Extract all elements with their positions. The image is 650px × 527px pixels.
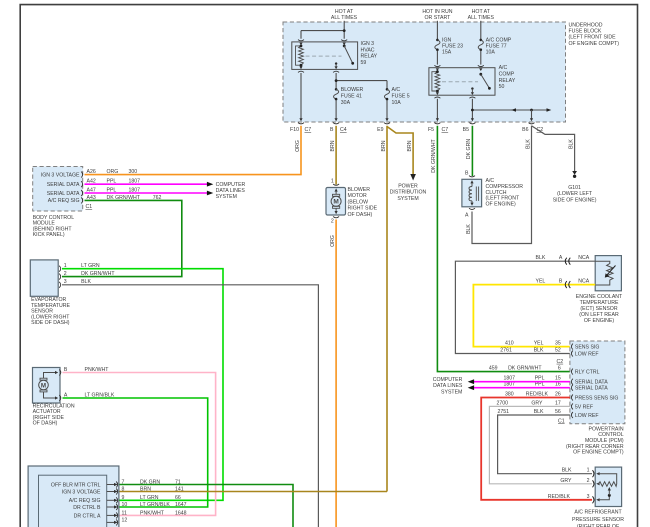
- PCM label: [566, 426, 624, 455]
- pressure sensor label: [572, 510, 624, 527]
- wire BLK PCM 56 to pressure sensor 1: [498, 415, 592, 474]
- svg-text:OF ENGINE COMPT): OF ENGINE COMPT): [573, 450, 624, 456]
- pin arrow relay K2 coil top: [436, 68, 439, 71]
- wire feed to fuse F77: [480, 21, 482, 39]
- svg-text:ALL TIMES: ALL TIMES: [468, 15, 495, 21]
- svg-text:GRY: GRY: [531, 400, 543, 406]
- svg-text:MOTOR: MOTOR: [348, 193, 367, 199]
- svg-text:NCA: NCA: [578, 279, 589, 285]
- PCM pin brackets: [571, 344, 573, 418]
- PCM row labels: [575, 345, 619, 419]
- wire relay K2 switch bottom to B5 pin: [471, 99, 473, 119]
- svg-text:TEMPERATURE: TEMPERATURE: [580, 300, 619, 306]
- pressure sensor pin labels: [548, 468, 590, 500]
- svg-text:RED/BLK: RED/BLK: [548, 494, 571, 500]
- svg-text:B: B: [330, 127, 334, 133]
- svg-text:1648: 1648: [175, 510, 187, 516]
- pin cup relay U1 switch top: [341, 40, 347, 41]
- pin E9: [377, 118, 390, 133]
- wire BRN HVAC row 8 to E9 vertical: [120, 491, 388, 493]
- inline connector ECT A: [565, 258, 570, 265]
- svg-text:15A: 15A: [442, 49, 452, 55]
- svg-text:DATA LINES: DATA LINES: [216, 188, 246, 194]
- svg-text:ORG: ORG: [295, 140, 301, 152]
- power distribution system label: [390, 184, 427, 202]
- svg-text:RELAY: RELAY: [499, 78, 516, 84]
- fuse F5 A/C FUSE 5 10A: [384, 87, 409, 106]
- svg-text:A/C REQ SIG: A/C REQ SIG: [69, 498, 101, 504]
- coil relay U1: [296, 46, 304, 65]
- evaporator sensor pin labels: [64, 263, 116, 285]
- svg-text:OF DASH): OF DASH): [348, 212, 373, 218]
- svg-text:59: 59: [361, 60, 367, 66]
- svg-text:SYSTEM: SYSTEM: [441, 389, 462, 395]
- HVAC pin stubs: [107, 482, 118, 526]
- svg-text:F5: F5: [428, 127, 434, 133]
- svg-text:DK GRN/WHT: DK GRN/WHT: [431, 138, 437, 172]
- svg-text:DR CTRL A: DR CTRL A: [74, 513, 101, 519]
- svg-text:(LEFT FRONT SIDE: (LEFT FRONT SIDE: [569, 35, 617, 41]
- switch relay U1: [335, 45, 354, 67]
- svg-text:PRESS SENS SIG: PRESS SENS SIG: [575, 396, 619, 402]
- svg-text:BRN: BRN: [381, 140, 387, 151]
- svg-text:9: 9: [122, 495, 125, 501]
- labels ECT A row: [535, 255, 589, 261]
- inline connector ECT B: [565, 281, 570, 288]
- svg-text:HVAC: HVAC: [361, 47, 375, 53]
- svg-text:A/C REQ SIG: A/C REQ SIG: [48, 198, 80, 204]
- pin arrow relay K2 switch bottom: [471, 92, 474, 95]
- wire PPL serial data 2: [85, 192, 208, 194]
- svg-text:F10: F10: [290, 127, 299, 133]
- A/C compressor clutch label: [486, 178, 524, 207]
- svg-text:B: B: [559, 279, 563, 285]
- wire fuse F77 to relay K2 switch: [480, 51, 482, 65]
- svg-text:M: M: [333, 199, 338, 206]
- svg-text:DK GRN: DK GRN: [466, 139, 472, 159]
- svg-text:RIGHT SIDE: RIGHT SIDE: [348, 206, 378, 212]
- svg-text:A/C: A/C: [392, 87, 401, 93]
- wire feed to fuse F23: [436, 21, 438, 39]
- svg-text:C7: C7: [442, 127, 449, 133]
- svg-text:OF ENGINE COMPT): OF ENGINE COMPT): [569, 41, 620, 47]
- pin arrow relay U1 switch top: [343, 43, 346, 46]
- ground G101: [553, 171, 597, 203]
- svg-text:BLK: BLK: [535, 255, 545, 261]
- svg-text:5V REF: 5V REF: [575, 404, 593, 410]
- wire LT GRN evap pin 1 to HVAC row 9: [62, 269, 223, 501]
- svg-text:B6: B6: [522, 127, 528, 133]
- relay K2 A/C COMP RELAY 50 box: [429, 68, 495, 96]
- svg-text:30A: 30A: [341, 100, 351, 106]
- svg-text:6: 6: [558, 366, 561, 372]
- wire feed to relay K1: [301, 21, 344, 39]
- PCM powertrain control module box: [570, 341, 625, 424]
- evaporator sensor pin brackets: [59, 266, 61, 288]
- wire PPL PCM 15 to data lines: [474, 381, 570, 383]
- evaporator sensor label: [31, 297, 70, 326]
- svg-text:COMPUTER: COMPUTER: [433, 377, 463, 383]
- wire fuse F41 to pin B: [335, 100, 337, 119]
- svg-text:DK GRN/WHT: DK GRN/WHT: [81, 271, 115, 277]
- svg-text:OF DASH): OF DASH): [33, 421, 58, 427]
- svg-text:(LOWER LEFT: (LOWER LEFT: [557, 191, 593, 197]
- wire PPL PCM 16 to data lines: [474, 387, 570, 389]
- pin cup relay K2 coil bottom: [434, 97, 440, 98]
- wire fuse F5 to pin E9: [386, 100, 388, 119]
- svg-text:HOT IN RUN: HOT IN RUN: [422, 9, 452, 15]
- potentiometer inside pressure sensor: [599, 474, 617, 500]
- svg-text:BRN: BRN: [407, 140, 413, 151]
- svg-text:ORG: ORG: [107, 169, 119, 175]
- arrow serial data 1: [207, 182, 213, 187]
- svg-text:C1: C1: [558, 418, 565, 424]
- wire RED/BLK PCM 26 to pressure sensor 3: [481, 398, 592, 500]
- svg-text:35: 35: [555, 341, 561, 347]
- svg-text:RELAY: RELAY: [361, 54, 378, 60]
- wire BRN branch to power distribution: [387, 127, 413, 176]
- ECT sensor label: [576, 294, 623, 324]
- svg-text:SIDE OF ENGINE): SIDE OF ENGINE): [553, 197, 597, 203]
- relay U1 IGN 3 HVAC RELAY 59 box: [292, 42, 358, 70]
- pin cup relay U1 coil top: [298, 40, 304, 41]
- svg-text:SYSTEM: SYSTEM: [216, 194, 237, 200]
- wire LT GRN/BLK actuator A to HVAC row 10: [63, 398, 208, 507]
- wire BLK ECT A to PCM LOW REF 52: [455, 261, 595, 353]
- svg-text:ORG: ORG: [330, 235, 336, 247]
- svg-text:DATA LINES: DATA LINES: [433, 383, 463, 389]
- svg-text:(ECT) SENSOR: (ECT) SENSOR: [580, 306, 617, 312]
- svg-text:12: 12: [122, 517, 128, 523]
- svg-text:YEL: YEL: [534, 341, 544, 347]
- svg-text:2: 2: [331, 219, 334, 225]
- svg-text:300: 300: [129, 169, 138, 175]
- wire YEL ECT B to PCM SENS SIG 35: [473, 285, 595, 347]
- recirculation actuator label: [33, 403, 75, 426]
- wire relay U1 coil bottom to F10: [300, 73, 302, 119]
- arrow PCM serial data 15: [468, 379, 474, 384]
- wire DK GRN/WHT F5 to PCM RLY CTRL: [437, 126, 570, 372]
- svg-text:410: 410: [505, 341, 514, 347]
- svg-text:SERIAL DATA: SERIAL DATA: [47, 191, 80, 197]
- A/C refrigerant pressure sensor box: [595, 467, 621, 506]
- svg-text:OFF BLR MTR CTRL: OFF BLR MTR CTRL: [51, 482, 101, 488]
- HVAC control module inner box: [39, 475, 107, 527]
- HVAC wire name labels: [140, 479, 187, 516]
- svg-text:10: 10: [122, 502, 128, 508]
- wire BLK B6 down to clutch return: [472, 126, 532, 244]
- svg-text:POWER: POWER: [398, 184, 418, 190]
- relay U1 label: [361, 41, 378, 66]
- svg-text:COMP: COMP: [499, 71, 515, 77]
- fuse F23 IGN FUSE 23 15A: [435, 37, 463, 55]
- wire GRY PCM 17 to pressure sensor 2: [489, 406, 592, 483]
- wire PNK/WHT actuator B to HVAC row 11: [63, 373, 216, 516]
- svg-text:459: 459: [489, 366, 498, 372]
- svg-text:1: 1: [331, 179, 334, 185]
- svg-text:RLY CTRL: RLY CTRL: [575, 370, 600, 376]
- svg-text:A: A: [465, 213, 469, 219]
- svg-text:FUSE 41: FUSE 41: [341, 94, 362, 100]
- svg-text:OF ENGINE): OF ENGINE): [486, 201, 517, 207]
- svg-text:A26: A26: [87, 169, 96, 175]
- svg-text:BLK: BLK: [525, 139, 531, 149]
- svg-text:BLOWER: BLOWER: [341, 87, 364, 93]
- wire relay K2 coil bottom to F5 pin: [436, 99, 438, 119]
- svg-text:DISTRIBUTION: DISTRIBUTION: [390, 190, 427, 196]
- wire BRN pin B to blower motor: [335, 126, 337, 185]
- svg-text:10A: 10A: [486, 49, 496, 55]
- svg-text:ALL TIMES: ALL TIMES: [331, 15, 358, 21]
- svg-text:LOW REF: LOW REF: [575, 413, 599, 419]
- relay K2 label: [499, 65, 516, 90]
- BCM wire name labels: [107, 169, 162, 201]
- pin arrow relay U1 switch bottom: [335, 66, 338, 69]
- bus wire to other circuits: [472, 108, 551, 112]
- svg-text:10A: 10A: [392, 100, 402, 106]
- recirculation actuator M2: [33, 367, 68, 403]
- ECT sensor box: [595, 256, 621, 291]
- svg-text:16: 16: [555, 382, 561, 388]
- svg-text:FUSE BLOCK: FUSE BLOCK: [569, 29, 602, 35]
- switch relay K2: [471, 73, 491, 93]
- pin arrow relay U1 coil bottom: [299, 66, 302, 69]
- wire DK GRN/WHT BCM A43 to evaporator sensor pin 2: [62, 200, 182, 276]
- svg-text:1647: 1647: [175, 502, 187, 508]
- dashed mechanical link relay K2: [442, 81, 478, 83]
- svg-text:2: 2: [587, 478, 590, 484]
- feed label HOT IN RUN OR START: [422, 9, 452, 21]
- svg-text:FUSE 5: FUSE 5: [392, 94, 410, 100]
- node junction B5 bus: [471, 109, 474, 112]
- svg-text:BLK: BLK: [568, 139, 574, 149]
- svg-text:BLK: BLK: [466, 224, 472, 234]
- svg-text:2751: 2751: [498, 409, 510, 415]
- svg-text:COMPUTER: COMPUTER: [216, 182, 246, 188]
- svg-text:1: 1: [587, 468, 590, 474]
- svg-text:LT GRN/BLK: LT GRN/BLK: [140, 502, 170, 508]
- pin cup relay U1 coil bottom: [298, 71, 304, 72]
- blower motor M1: [326, 179, 346, 225]
- svg-text:G101: G101: [568, 185, 581, 191]
- wire ORG blower motor down off page: [335, 220, 337, 527]
- fuse F77 A/C COMP FUSE 77 10A: [478, 37, 512, 55]
- feed label HOT AT ALL TIMES (left): [331, 9, 358, 21]
- svg-text:HOT AT: HOT AT: [335, 9, 354, 15]
- svg-text:DK GRN/WHT: DK GRN/WHT: [508, 366, 542, 372]
- svg-text:C1: C1: [86, 204, 93, 210]
- svg-text:BLK: BLK: [534, 409, 544, 415]
- svg-text:IGN 3: IGN 3: [361, 41, 375, 47]
- svg-text:PRESSURE SENSOR: PRESSURE SENSOR: [572, 517, 624, 523]
- wire DK GRN HVAC row 7 off page: [120, 485, 294, 527]
- pin F5: [428, 118, 448, 133]
- svg-text:50: 50: [499, 84, 505, 90]
- pin arrow relay U1 coil top: [299, 43, 302, 46]
- node junction B6 bus: [530, 109, 533, 112]
- svg-text:A/C REFRIGERANT: A/C REFRIGERANT: [574, 510, 622, 516]
- svg-text:ENGINE COOLANT: ENGINE COOLANT: [576, 294, 623, 300]
- svg-text:56: 56: [555, 409, 561, 415]
- svg-text:IGN 3 VOLTAGE: IGN 3 VOLTAGE: [62, 489, 101, 495]
- svg-text:SERIAL DATA: SERIAL DATA: [575, 386, 608, 392]
- pin cup relay K2 coil top: [434, 65, 440, 66]
- svg-text:BLK: BLK: [534, 348, 544, 354]
- svg-text:(ON LEFT REAR: (ON LEFT REAR: [579, 312, 619, 318]
- svg-text:PNK/WHT: PNK/WHT: [140, 510, 165, 516]
- underhood fuse block label: [569, 22, 620, 47]
- svg-text:NCA: NCA: [578, 255, 589, 261]
- svg-text:UNDERHOOD: UNDERHOOD: [569, 22, 603, 28]
- BCM body control module box: [33, 167, 83, 212]
- svg-text:66: 66: [175, 495, 181, 501]
- feed label HOT AT ALL TIMES (right): [468, 9, 495, 21]
- thermistor ECT: [595, 261, 615, 285]
- svg-text:DR CTRL B: DR CTRL B: [73, 505, 101, 511]
- wire relay U1 switch bottom to fuses: [336, 73, 387, 88]
- BCM label: [33, 215, 75, 238]
- svg-text:IGN 3 VOLTAGE: IGN 3 VOLTAGE: [41, 172, 80, 178]
- svg-text:BRN: BRN: [330, 140, 336, 151]
- pin cup relay K2 switch bottom: [469, 97, 475, 98]
- HVAC pin number labels: [122, 479, 128, 523]
- svg-text:3: 3: [587, 494, 590, 500]
- pin cup relay U1 switch bottom: [333, 71, 339, 72]
- arrow serial data 2: [207, 191, 213, 196]
- computer data lines system label (right): [433, 377, 463, 395]
- coil relay K2: [432, 72, 440, 91]
- wire fuse F23 to relay K2 coil: [436, 51, 438, 65]
- svg-text:SENS SIG: SENS SIG: [575, 345, 600, 351]
- BCM pin labels: [87, 169, 96, 201]
- svg-text:LT GRN: LT GRN: [140, 495, 159, 501]
- pin cup relay K2 switch top: [478, 65, 484, 66]
- pin B6: [522, 118, 543, 133]
- svg-text:SIDE OF DASH): SIDE OF DASH): [31, 320, 70, 326]
- svg-text:BLK: BLK: [562, 468, 572, 474]
- svg-text:E9: E9: [377, 127, 383, 133]
- svg-text:BLOWER: BLOWER: [348, 187, 371, 193]
- evaporator temperature sensor box: [30, 260, 58, 296]
- dashed mechanical link relay U1: [306, 55, 342, 57]
- pin B5: [463, 118, 476, 133]
- A/C compressor clutch: [462, 171, 482, 219]
- svg-text:52: 52: [555, 348, 561, 354]
- wire bus to B6 pin: [531, 110, 533, 119]
- svg-text:LOW REF: LOW REF: [575, 352, 599, 358]
- pin arrow relay K2 switch top: [479, 68, 482, 71]
- node junction at feed: [343, 29, 346, 32]
- wire BLK B6 to G101: [532, 126, 575, 172]
- svg-text:SERIAL DATA: SERIAL DATA: [47, 182, 80, 188]
- svg-text:PPL: PPL: [535, 382, 545, 388]
- svg-text:YEL: YEL: [535, 279, 545, 285]
- svg-text:GRY: GRY: [560, 478, 572, 484]
- svg-text:17: 17: [555, 400, 561, 406]
- svg-text:1807: 1807: [504, 382, 516, 388]
- PCM wire labels: [489, 341, 561, 415]
- wire DK GRN B5 to clutch: [471, 126, 473, 176]
- svg-text:KICK PANEL): KICK PANEL): [33, 232, 65, 238]
- arrow PCM serial data 16: [468, 385, 474, 390]
- labels ECT B row: [535, 279, 589, 285]
- wire PPL serial data 1: [85, 183, 208, 185]
- arrow power distribution: [410, 174, 416, 181]
- wire BRN E9 down to HVAC row 8: [386, 126, 388, 492]
- svg-text:B5: B5: [463, 127, 469, 133]
- HVAC control module outer box: [28, 466, 119, 527]
- pin F10: [290, 118, 311, 133]
- wire BLK evap pin 3 down off page: [62, 285, 318, 527]
- BCM pin brackets: [81, 172, 83, 204]
- computer data lines system label (left): [216, 182, 246, 200]
- pin arrow relay K2 coil bottom: [436, 92, 439, 95]
- svg-text:SYSTEM: SYSTEM: [397, 196, 418, 202]
- svg-text:C7: C7: [305, 127, 312, 133]
- svg-text:HOT AT: HOT AT: [472, 9, 491, 15]
- svg-text:OR START: OR START: [425, 15, 452, 21]
- fuse F41 BLOWER FUSE 41 30A: [334, 87, 364, 106]
- svg-text:M: M: [41, 382, 46, 389]
- node junction fuse branch: [335, 79, 338, 82]
- svg-text:2761: 2761: [500, 348, 512, 354]
- svg-text:C2: C2: [557, 359, 564, 365]
- HVAC row labels: [51, 482, 101, 519]
- svg-text:OF ENGINE): OF ENGINE): [584, 318, 615, 324]
- svg-text:11: 11: [122, 510, 127, 516]
- svg-text:2700: 2700: [497, 400, 509, 406]
- svg-text:(BELOW: (BELOW: [348, 199, 369, 205]
- svg-text:A/C: A/C: [499, 65, 508, 71]
- pressure sensor pins: [593, 470, 600, 503]
- blower motor label: [348, 187, 378, 218]
- wire ORG F10 to BCM A26: [85, 126, 302, 175]
- underhood fuse block box: [283, 22, 566, 122]
- svg-text:A: A: [559, 255, 563, 261]
- svg-text:B: B: [465, 171, 469, 177]
- svg-text:C4: C4: [340, 127, 347, 133]
- BCM row labels: [41, 172, 80, 204]
- svg-text:2: 2: [64, 271, 67, 277]
- pin B: [330, 118, 347, 133]
